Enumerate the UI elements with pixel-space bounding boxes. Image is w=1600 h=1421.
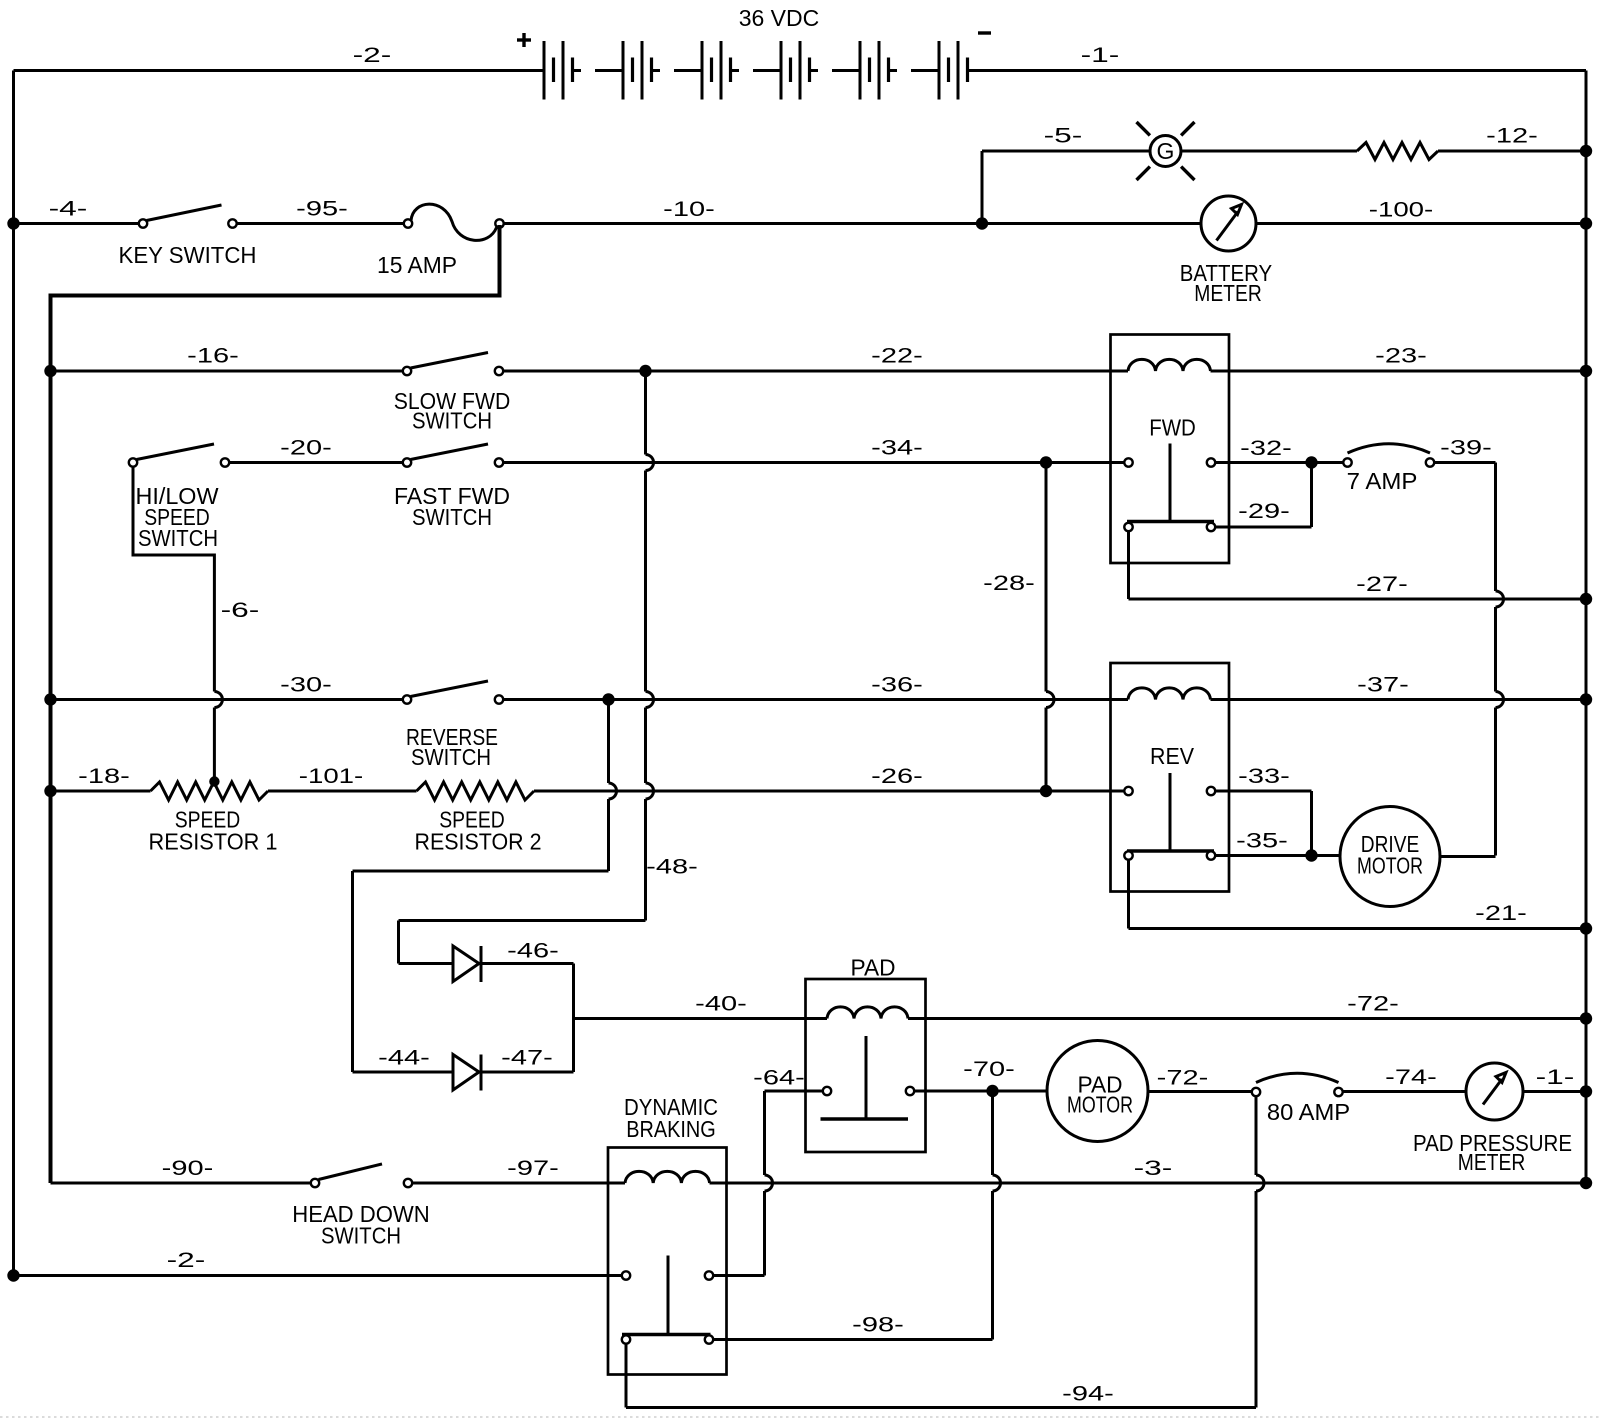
- reverse switch: [403, 681, 503, 770]
- svg-text:FWD: FWD: [1149, 415, 1196, 441]
- wire -34-: [504, 437, 1125, 463]
- node -36- junction x608.5: [602, 693, 614, 705]
- svg-text:SWITCH: SWITCH: [321, 1223, 401, 1249]
- svg-text:-1-: -1-: [1536, 1066, 1575, 1089]
- wire -4-: [14, 198, 139, 224]
- contactor PAD box: [806, 979, 926, 1152]
- wire -70-: [915, 1058, 1047, 1091]
- fuse 15 AMP: [377, 204, 504, 278]
- wire -5-: [982, 125, 1150, 224]
- slow fwd switch: [394, 353, 511, 434]
- svg-text:-64-: -64-: [753, 1067, 805, 1090]
- wire -37-: [1211, 674, 1587, 700]
- wire -28- vertical: [983, 463, 1054, 792]
- svg-text:-32-: -32-: [1240, 437, 1292, 460]
- contactor REV contacts: [1124, 773, 1215, 860]
- wire -12- to right border: [1438, 150, 1586, 153]
- wire -22-: [504, 345, 1129, 372]
- speed resistor 2: [415, 782, 542, 855]
- svg-text:-16-: -16-: [187, 345, 239, 368]
- wire -20-: [230, 437, 404, 463]
- wire -47- right: [482, 1071, 574, 1074]
- wire -98-: [714, 1314, 993, 1340]
- wire -72- motor to fuse: [1148, 1067, 1252, 1092]
- svg-text:-26-: -26-: [871, 765, 923, 788]
- label DYNAMIC BRAKING: [624, 1094, 718, 1142]
- svg-text:-95-: -95-: [296, 198, 348, 221]
- wire -6-: [133, 467, 259, 778]
- node right border junctions: [1580, 145, 1592, 1189]
- node -18- left: [44, 785, 56, 797]
- node left border main: [7, 217, 19, 229]
- svg-text:-3-: -3-: [1134, 1157, 1173, 1180]
- svg-text:PAD: PAD: [851, 955, 896, 981]
- svg-text:-39-: -39-: [1440, 437, 1492, 460]
- wire -32-: [1216, 437, 1344, 463]
- node -30- left: [44, 693, 56, 705]
- contactor DYNAMIC BRAKING box: [608, 1148, 727, 1375]
- wire -29-: [1216, 463, 1312, 528]
- svg-text:-47-: -47-: [501, 1047, 553, 1070]
- wire -90-: [51, 1157, 312, 1183]
- svg-text:-101-: -101-: [299, 765, 364, 788]
- wire -36-: [504, 674, 1129, 700]
- svg-text:-44-: -44-: [378, 1047, 430, 1070]
- wire -16-: [51, 345, 404, 372]
- svg-text:-1-: -1-: [1081, 44, 1120, 67]
- wire 80amp vertical -94-: [1255, 1097, 1258, 1176]
- battery 36 VDC: [14, 41, 1587, 100]
- svg-text:SWITCH: SWITCH: [412, 504, 492, 530]
- coil FWD: [1128, 359, 1211, 371]
- contactor PAD contacts: [821, 1036, 915, 1119]
- wire -46- right: [482, 962, 574, 965]
- battery + terminal: [517, 33, 531, 47]
- svg-text:-48-: -48-: [646, 856, 698, 879]
- wire x352.5 vertical: [351, 871, 354, 1072]
- node -22-/-48- junction: [639, 365, 651, 377]
- meter PAD PRESSURE: [1413, 1063, 1572, 1175]
- wire -48- vertical: [646, 371, 698, 921]
- head down switch: [292, 1164, 430, 1249]
- wire -2- bottom: [14, 1249, 622, 1276]
- svg-text:-94-: -94-: [1062, 1383, 1114, 1406]
- wire -26- into REV: [1123, 790, 1127, 793]
- battery meter: [1180, 196, 1272, 306]
- diode -46-: [453, 940, 559, 983]
- speed resistor 1: [149, 782, 278, 855]
- wire -64-: [753, 1067, 822, 1092]
- svg-text:METER: METER: [1458, 1149, 1526, 1175]
- svg-text:-4-: -4-: [49, 198, 88, 221]
- svg-text:REV: REV: [1150, 743, 1195, 769]
- svg-text:SWITCH: SWITCH: [412, 408, 492, 434]
- wire -3-: [710, 1157, 1587, 1183]
- wire -34- into FWD: [1123, 461, 1127, 464]
- wire -97-: [413, 1157, 626, 1183]
- node -6- on speed resistor 1: [209, 776, 219, 786]
- wire -21-: [1129, 860, 1587, 929]
- node junction -5-/-10-: [976, 217, 988, 229]
- svg-text:15 AMP: 15 AMP: [377, 252, 457, 278]
- key switch: [119, 205, 257, 268]
- wire -39-: [1435, 437, 1496, 463]
- svg-text:-30-: -30-: [280, 674, 332, 697]
- wire fuse drop to left bus: [51, 225, 500, 1183]
- node -16- left: [44, 365, 56, 377]
- node -32-/-29- junction: [1305, 456, 1317, 468]
- svg-text:MOTOR: MOTOR: [1357, 853, 1423, 879]
- wire -100-: [1256, 199, 1586, 224]
- battery - terminal: [978, 31, 991, 34]
- svg-text:-37-: -37-: [1357, 674, 1409, 697]
- wire lamp to resistor: [1181, 150, 1357, 153]
- svg-text:-2-: -2-: [353, 44, 392, 67]
- wire x573.5 vertical: [572, 964, 575, 1073]
- coil DYNAMIC BRAKING: [625, 1171, 710, 1183]
- svg-text:RESISTOR 1: RESISTOR 1: [149, 829, 278, 855]
- wire -39- vertical: [1494, 463, 1497, 592]
- wire drive motor to -39-: [1440, 855, 1496, 858]
- wire -35-: [1216, 830, 1341, 856]
- svg-text:-72-: -72-: [1347, 993, 1399, 1016]
- fuse 7 AMP: [1343, 444, 1434, 494]
- node -70- junction: [986, 1085, 998, 1097]
- svg-text:MOTOR: MOTOR: [1067, 1092, 1133, 1118]
- wire x608.5 to x352.5 link: [353, 870, 609, 873]
- svg-text:SWITCH: SWITCH: [138, 525, 218, 551]
- motor DRIVE MOTOR: [1340, 807, 1440, 907]
- wire -46- left: [399, 962, 454, 965]
- svg-text:-29-: -29-: [1238, 500, 1290, 523]
- wire x398.5 vertical: [397, 921, 400, 964]
- wire -10-: [504, 198, 1201, 224]
- svg-text:BRAKING: BRAKING: [626, 1116, 716, 1142]
- wire right border: [1585, 71, 1588, 1184]
- svg-text:-40-: -40-: [695, 993, 747, 1016]
- node -26- junction at x1046: [1040, 785, 1052, 797]
- lamp G: [1137, 122, 1195, 180]
- svg-text:-5-: -5-: [1044, 125, 1083, 148]
- svg-text:-46-: -46-: [507, 940, 559, 963]
- hi/low speed switch: [129, 444, 229, 551]
- svg-text:-6-: -6-: [221, 599, 260, 622]
- coil PAD: [827, 1007, 908, 1019]
- svg-text:-98-: -98-: [852, 1314, 904, 1337]
- wire -64- vertical: [763, 1091, 766, 1175]
- svg-text:-10-: -10-: [663, 198, 715, 221]
- wire db right contact link: [714, 1274, 765, 1277]
- svg-text:36 VDC: 36 VDC: [739, 5, 820, 31]
- svg-text:7 AMP: 7 AMP: [1347, 468, 1418, 494]
- svg-text:80 AMP: 80 AMP: [1267, 1099, 1350, 1125]
- wire -40-: [574, 993, 828, 1019]
- svg-text:-18-: -18-: [78, 765, 130, 788]
- contactor FWD contacts: [1124, 444, 1215, 532]
- svg-text:-97-: -97-: [507, 1157, 559, 1180]
- svg-text:-2-: -2-: [167, 1249, 206, 1272]
- page edge dotted: [0, 1416, 1600, 1418]
- wire left border: [12, 71, 15, 1276]
- contactor DYNAMIC BRAKING contacts: [622, 1256, 713, 1344]
- wire -26-: [534, 765, 1124, 791]
- fast fwd switch: [394, 444, 510, 530]
- svg-text:-21-: -21-: [1475, 902, 1527, 925]
- svg-text:-70-: -70-: [963, 1058, 1015, 1081]
- svg-text:-20-: -20-: [280, 437, 332, 460]
- wire -1- to right border: [1523, 1066, 1586, 1092]
- wire -30-: [51, 674, 404, 700]
- svg-text:-74-: -74-: [1385, 1066, 1437, 1089]
- wire -33-: [1216, 765, 1312, 856]
- node -2- left border: [7, 1269, 19, 1281]
- wire -95-: [237, 198, 404, 224]
- svg-text:-90-: -90-: [162, 1157, 214, 1180]
- wire -23-: [1211, 345, 1587, 372]
- wire x608.5 vertical: [607, 700, 610, 784]
- resistor -12-: [1357, 125, 1538, 160]
- svg-text:-28-: -28-: [983, 572, 1035, 595]
- fuse 80 AMP: [1252, 1073, 1350, 1125]
- wire -72- top: [908, 993, 1586, 1019]
- motor PAD MOTOR: [1047, 1041, 1148, 1142]
- wire -18-: [51, 765, 151, 791]
- svg-text:METER: METER: [1194, 280, 1262, 306]
- svg-text:-100-: -100-: [1369, 199, 1434, 222]
- svg-text:-34-: -34-: [871, 437, 923, 460]
- wire -48- link y920.5: [399, 919, 646, 922]
- contactor FWD box: [1111, 335, 1230, 564]
- wire -44-: [353, 1047, 454, 1073]
- wire -27-: [1129, 532, 1587, 600]
- svg-text:SWITCH: SWITCH: [411, 744, 491, 770]
- svg-text:-12-: -12-: [1486, 125, 1538, 148]
- node -34-/-28- junction: [1040, 456, 1052, 468]
- svg-text:-36-: -36-: [871, 674, 923, 697]
- wire -101-: [268, 765, 417, 791]
- svg-text:-35-: -35-: [1236, 830, 1288, 853]
- svg-text:-72-: -72-: [1157, 1067, 1209, 1090]
- svg-text:G: G: [1157, 138, 1175, 164]
- svg-text:KEY SWITCH: KEY SWITCH: [119, 242, 257, 268]
- wire -74-: [1343, 1066, 1466, 1092]
- coil REV: [1128, 688, 1211, 700]
- svg-text:-23-: -23-: [1375, 345, 1427, 368]
- wire -70- vertical: [991, 1091, 994, 1175]
- svg-text:-22-: -22-: [871, 345, 923, 368]
- wire -94-: [626, 1344, 1256, 1408]
- svg-text:-27-: -27-: [1356, 573, 1408, 596]
- diode -47-: [453, 1047, 553, 1091]
- svg-text:RESISTOR 2: RESISTOR 2: [415, 829, 542, 855]
- contactor REV box: [1111, 663, 1230, 892]
- node -33-/-35- junction: [1305, 849, 1317, 861]
- svg-text:-33-: -33-: [1238, 765, 1290, 788]
